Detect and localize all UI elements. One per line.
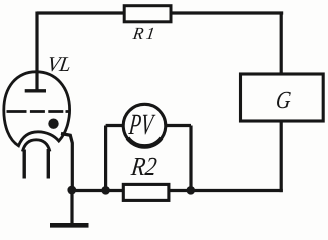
tube VL: gas-filled indicator dot	[48, 119, 58, 129]
wire: PV right branch horizontal	[164, 124, 191, 127]
resistor R1	[124, 6, 171, 22]
wire: right rail top vertical	[280, 12, 283, 75]
wire: bottom rail left segment	[71, 189, 123, 192]
wire: PV right branch vertical	[189, 126, 192, 191]
voltmeter PV circle bottom thick arc	[128, 138, 162, 146]
svg-text:R2: R2	[129, 153, 158, 182]
ground symbol	[50, 223, 89, 228]
ground lead	[70, 188, 73, 224]
wire: bottom rail right segment	[170, 189, 283, 192]
tube VL: heater lead stub left	[23, 150, 26, 179]
tube VL: envelope	[4, 72, 70, 146]
wire: top rail left segment	[37, 11, 124, 14]
tube VL: grid (dashed)	[7, 110, 69, 113]
junction dot: PV right branch node	[187, 186, 196, 195]
wire: anode lead (top-left vertical)	[35, 12, 38, 90]
wire: top rail right segment	[172, 11, 283, 14]
wire: PV left branch vertical	[104, 126, 107, 191]
generator G box	[241, 74, 324, 121]
junction dot: PV left branch node	[101, 186, 110, 195]
wire: cathode lead from tube to bottom rail	[61, 134, 72, 191]
tube VL: heater arch	[22, 140, 50, 152]
resistor R2	[123, 184, 169, 200]
voltmeter PV circle	[123, 104, 166, 147]
tube VL: anode plate	[25, 89, 46, 92]
wire: right rail bottom vertical	[280, 121, 283, 192]
tube VL: heater lead stub right	[47, 149, 50, 179]
svg-text:VL: VL	[46, 54, 73, 76]
junction dot: cathode/ground node	[67, 186, 76, 195]
wire: PV left branch horizontal	[106, 124, 125, 127]
